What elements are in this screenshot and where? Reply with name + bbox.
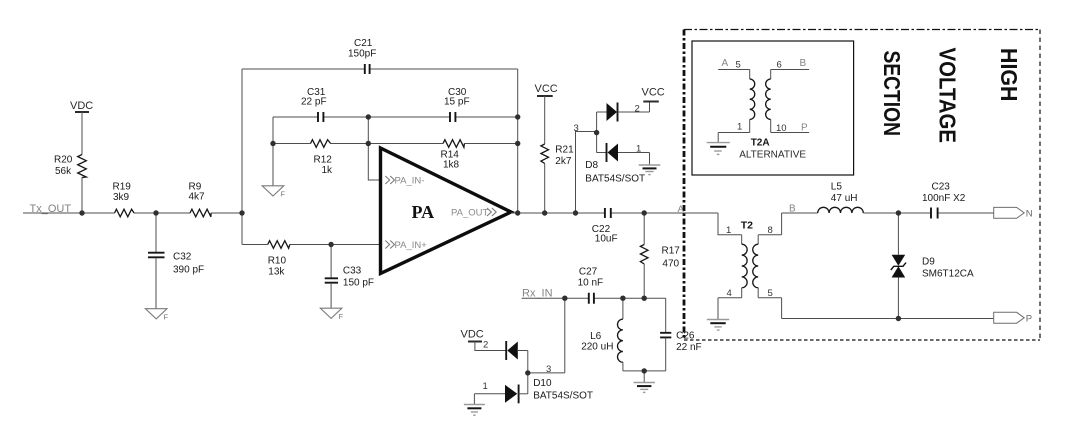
diode D10a (to VDC)	[505, 341, 507, 360]
dashed box: bottom edge	[684, 339, 1040, 341]
transformer T2A primary	[749, 70, 751, 80]
ground F (under C33)	[320, 308, 342, 318]
wire D8 pin3 branch	[576, 132, 597, 214]
svg-text:2k7: 2k7	[555, 156, 572, 167]
wire PA_IN- feed	[368, 117, 380, 180]
wire D10 center vertical	[527, 351, 529, 394]
svg-text:150 pF: 150 pF	[343, 278, 374, 289]
wire C33 to ground	[330, 283, 332, 308]
svg-text:13k: 13k	[268, 267, 285, 278]
svg-text:4k7: 4k7	[189, 192, 206, 203]
svg-text:VDC: VDC	[461, 329, 484, 341]
dashed box: left edge	[683, 30, 686, 341]
svg-text:D9: D9	[922, 257, 935, 268]
svg-text:1: 1	[483, 381, 488, 392]
svg-text:D10: D10	[533, 378, 552, 389]
capacitor C30	[450, 112, 455, 122]
capacitor C23	[931, 208, 938, 219]
capacitor C22	[605, 208, 611, 218]
svg-text:PA: PA	[412, 202, 435, 222]
wire Rx_IN row	[522, 297, 666, 299]
wire VCC to R21	[544, 96, 546, 144]
connector N	[994, 207, 1024, 218]
wire R21 to main line	[544, 164, 546, 214]
svg-text:ALTERNATIVE: ALTERNATIVE	[739, 150, 806, 161]
svg-text:A: A	[678, 204, 685, 215]
wire D8 center vertical	[596, 112, 598, 153]
capacitor C27	[589, 293, 594, 304]
resistor R10	[268, 241, 290, 249]
capacitor C31	[318, 112, 323, 122]
resistor R9	[190, 209, 211, 217]
diode D10b (from GND)	[474, 393, 505, 395]
capacitor C26	[665, 298, 667, 332]
svg-text:F: F	[339, 312, 344, 321]
svg-text:470: 470	[662, 259, 679, 270]
svg-text:15 pF: 15 pF	[444, 97, 470, 108]
resistor R21	[541, 144, 549, 164]
svg-text:47 uH: 47 uH	[831, 193, 858, 204]
svg-text:BAT54S/SOT: BAT54S/SOT	[585, 174, 645, 185]
wire T2 pin1	[718, 213, 742, 235]
wire C31 row	[273, 116, 518, 118]
svg-text:4: 4	[727, 288, 732, 299]
svg-text:L6: L6	[590, 331, 602, 342]
svg-text:F: F	[164, 313, 169, 322]
capacitor C33	[325, 278, 338, 282]
connector P	[994, 312, 1024, 323]
svg-text:2: 2	[635, 104, 640, 115]
ground (L6/C26)	[643, 371, 645, 382]
wire R20 to Tx line	[81, 178, 83, 214]
wire C32 branch	[155, 213, 157, 252]
svg-text:C27: C27	[579, 267, 598, 278]
pin PA_IN-	[385, 176, 389, 184]
wire R12 row	[273, 143, 518, 145]
svg-text:C33: C33	[343, 266, 362, 277]
svg-text:1k: 1k	[322, 165, 334, 176]
wire B row to L5	[782, 212, 818, 214]
svg-text:P: P	[801, 123, 808, 134]
svg-text:C21: C21	[354, 38, 373, 49]
svg-text:R12: R12	[314, 155, 333, 166]
capacitor C32	[148, 253, 165, 258]
svg-text:R19: R19	[113, 182, 132, 193]
svg-text:3: 3	[574, 123, 579, 134]
ground (D10)	[473, 394, 475, 405]
wire VDC to R20	[81, 112, 83, 155]
svg-text:6: 6	[777, 60, 782, 71]
resistor R20	[78, 155, 87, 178]
svg-text:8: 8	[768, 225, 773, 236]
wire left vertical to ground	[272, 117, 274, 186]
diode D8a (to VCC)	[597, 111, 607, 113]
svg-text:1: 1	[636, 144, 641, 155]
wire feedback left vertical	[241, 69, 243, 245]
T2 primary coil	[741, 235, 743, 244]
box T2A alternative	[692, 41, 854, 175]
svg-text:VDC: VDC	[70, 100, 93, 112]
resistor R12	[311, 140, 331, 148]
svg-text:5: 5	[736, 60, 741, 71]
dashed box: right edge	[1039, 30, 1041, 341]
svg-text:R20: R20	[54, 155, 73, 166]
resistor R19	[115, 209, 135, 217]
dashed box HIGH VOLTAGE SECTION: top edge	[684, 29, 1040, 31]
svg-text:PA_OUT: PA_OUT	[451, 208, 489, 219]
svg-text:C23: C23	[932, 182, 951, 193]
svg-text:P: P	[1026, 314, 1032, 325]
op-amp PA	[381, 148, 512, 274]
svg-text:3k9: 3k9	[113, 192, 130, 203]
wire C32 to ground	[155, 258, 157, 309]
svg-text:R10: R10	[268, 256, 287, 267]
wire Tx_OUT to R19	[23, 212, 115, 214]
svg-text:SM6T12CA: SM6T12CA	[922, 269, 974, 280]
svg-text:100nF X2: 100nF X2	[922, 193, 966, 204]
svg-text:A: A	[722, 58, 729, 69]
svg-text:220 uH: 220 uH	[581, 342, 613, 353]
diode D8b (from GND)	[597, 152, 606, 154]
svg-text:F: F	[281, 190, 286, 199]
transformer T2A secondary	[771, 70, 809, 80]
resistor R17	[643, 213, 645, 245]
svg-text:T2: T2	[741, 220, 753, 232]
svg-text:C32: C32	[173, 252, 192, 263]
wire C33 branch	[330, 245, 332, 279]
wire PA_IN+ row	[242, 244, 381, 246]
ground (D8)	[639, 164, 661, 166]
pin PA_IN+	[385, 241, 389, 249]
wire L5 to C23	[863, 212, 993, 214]
svg-text:VOLTAGE: VOLTAGE	[935, 48, 961, 144]
svg-text:1: 1	[737, 122, 742, 133]
ground (T2A)	[717, 133, 719, 143]
wire L6/C26 bottom	[623, 370, 666, 372]
ground F (under C32)	[145, 309, 167, 319]
diode D9 TVS	[897, 213, 899, 255]
wire bottom rail to P	[782, 318, 994, 320]
svg-text:1k8: 1k8	[443, 160, 460, 171]
svg-text:N: N	[1026, 209, 1033, 220]
svg-text:5: 5	[768, 288, 773, 299]
svg-text:150pF: 150pF	[348, 49, 376, 60]
svg-text:VCC: VCC	[642, 87, 665, 99]
svg-text:1: 1	[726, 225, 731, 236]
wire R19 to R9	[134, 212, 190, 214]
wire R9 to node	[211, 212, 242, 214]
ground F (left of R12)	[262, 186, 284, 196]
wire C21 top row	[242, 68, 518, 70]
inductor L5	[818, 207, 864, 213]
T2 secondary coil	[758, 213, 781, 244]
svg-text:HIGH: HIGH	[996, 48, 1022, 102]
wire T2A pin5	[718, 69, 750, 71]
svg-text:22 pF: 22 pF	[301, 97, 327, 108]
svg-text:D8: D8	[585, 160, 598, 171]
svg-text:SECTION: SECTION	[879, 51, 905, 137]
svg-text:R21: R21	[555, 145, 574, 156]
svg-text:10uF: 10uF	[595, 234, 618, 245]
wire PA output main line	[511, 212, 718, 214]
svg-text:PA_IN-: PA_IN-	[395, 176, 425, 187]
svg-text:10 nF: 10 nF	[578, 278, 604, 289]
svg-text:2: 2	[483, 340, 488, 351]
capacitor C21	[365, 64, 370, 74]
svg-text:B: B	[800, 58, 807, 69]
svg-text:R17: R17	[662, 246, 681, 257]
svg-text:3: 3	[546, 364, 551, 375]
resistor R14	[443, 140, 464, 148]
wire feedback right vertical	[517, 69, 519, 213]
svg-text:22 nF: 22 nF	[676, 342, 702, 353]
svg-text:BAT54S/SOT: BAT54S/SOT	[533, 391, 593, 402]
svg-text:L5: L5	[831, 182, 843, 193]
svg-text:390 pF: 390 pF	[173, 265, 204, 276]
svg-text:PA_IN+: PA_IN+	[395, 240, 428, 251]
svg-text:VCC: VCC	[535, 83, 558, 95]
svg-text:10: 10	[776, 123, 787, 134]
ground (T2)	[717, 298, 719, 320]
svg-text:T2A: T2A	[751, 138, 770, 149]
svg-text:56k: 56k	[55, 166, 72, 177]
inductor L6	[622, 298, 624, 319]
wire Rx to D10 pin3	[528, 298, 565, 373]
